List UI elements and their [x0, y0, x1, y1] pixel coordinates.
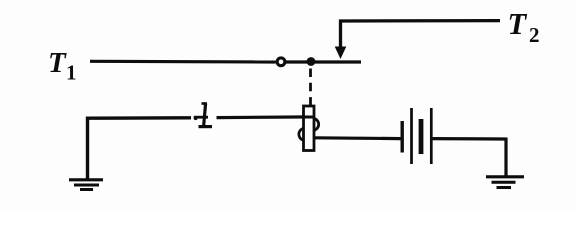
svg-text:T: T	[508, 7, 528, 41]
svg-text:1: 1	[66, 61, 77, 85]
svg-text:2: 2	[529, 23, 540, 47]
svg-text:T: T	[48, 47, 67, 79]
